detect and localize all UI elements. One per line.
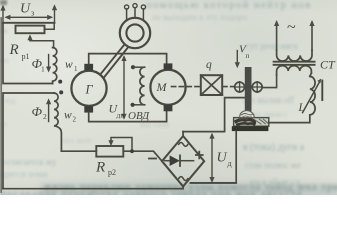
wire: electrode to bridge top — [183, 98, 246, 132]
svg-text:з: з — [31, 9, 34, 18]
winding ОВД — [128, 65, 150, 122]
transformer СТ secondary — [277, 66, 312, 75]
drive motor (AC) — [120, 18, 150, 48]
svg-text:СТ: СТ — [320, 58, 336, 72]
wire: secondary left to roller — [262, 75, 276, 88]
weld bead dark mass — [236, 120, 254, 124]
svg-text:2: 2 — [43, 112, 47, 121]
corner smudge — [0, 0, 7, 5]
svg-text:R: R — [95, 160, 105, 176]
svg-text:w: w — [65, 59, 73, 71]
brush М top — [164, 63, 173, 69]
svg-text:п: п — [246, 52, 250, 60]
wire: bottom control loop — [61, 150, 96, 152]
svg-text:q: q — [206, 59, 212, 71]
wire: top reference bus — [3, 22, 55, 24]
wire: bridge plus to workpiece drop — [191, 182, 237, 184]
dashed link М to feed box — [172, 86, 201, 88]
svg-text:2: 2 — [73, 116, 77, 124]
bleed-through text — [146, 0, 312, 11]
wire: workpiece to bridge output — [190, 131, 236, 182]
brush Г top — [84, 64, 93, 71]
node Uдв annotation — [109, 55, 127, 120]
node Uз annotation — [0, 2, 57, 23]
ac tilde top — [179, 142, 188, 146]
svg-text:w: w — [64, 110, 72, 122]
svg-text:д: д — [228, 159, 232, 168]
svg-text:~: ~ — [287, 19, 296, 36]
wire: armature bottom — [89, 111, 167, 122]
wire: bridge bottom lead to left bus — [3, 186, 183, 188]
node Vп annotation — [235, 44, 250, 69]
node Ф1 flux arrow — [32, 55, 52, 74]
winding w2 — [54, 93, 61, 151]
ac tilde bottom — [179, 177, 188, 181]
svg-text:Ф: Ф — [32, 104, 43, 119]
svg-text:р1: р1 — [22, 52, 30, 61]
wire: w2 loop top / left bus lower — [3, 93, 54, 189]
three-phase terminals — [126, 9, 128, 20]
svg-text:дв: дв — [117, 111, 125, 120]
Rр2 wiper short — [108, 138, 134, 154]
page edge line — [0, 18, 2, 192]
brush М bottom — [164, 105, 173, 111]
svg-text:М: М — [156, 80, 168, 94]
wire: armature top — [89, 54, 167, 64]
wire hook Rр1 right terminal — [45, 23, 55, 29]
wire: w1 loop bottom / left bus upper — [3, 23, 53, 84]
svg-text:1: 1 — [74, 65, 78, 73]
diode — [165, 160, 170, 162]
resistor Rр1 (potentiometer) — [16, 26, 45, 34]
svg-text:Г: Г — [85, 83, 94, 97]
workpiece backing shadow — [232, 126, 269, 131]
transformer СТ primary — [277, 50, 312, 61]
wire: secondary right into L — [310, 73, 312, 76]
svg-text:U: U — [20, 2, 31, 17]
feed roller right — [252, 82, 263, 93]
svg-text:U: U — [217, 151, 228, 166]
svg-text:р2: р2 — [108, 168, 116, 177]
feed mechanism box q — [201, 75, 222, 95]
node dot w2 — [59, 90, 63, 94]
transformer core — [274, 62, 315, 65]
inductor L (variable) — [269, 76, 315, 122]
resistor Rр2 — [96, 146, 123, 157]
electrode — [245, 67, 252, 114]
wire: bridge top lead — [182, 132, 184, 136]
svg-text:R: R — [9, 42, 19, 58]
node Ф2 flux arrow — [32, 98, 52, 121]
feed roller left — [234, 82, 245, 93]
winding w1 — [53, 48, 57, 84]
Rр1 wiper — [27, 34, 53, 47]
plus label — [196, 152, 203, 159]
motor М — [150, 70, 185, 105]
svg-text:ОВД: ОВД — [128, 110, 150, 122]
shaft coupling — [100, 45, 124, 75]
svg-text:L: L — [298, 102, 305, 114]
minus label — [149, 158, 156, 160]
node Uд annotation — [209, 133, 231, 183]
weld pool — [240, 111, 254, 118]
workpiece — [234, 118, 269, 127]
node dot w1 — [58, 80, 62, 84]
transformer СТ supply arrows — [274, 19, 315, 50]
svg-text:1: 1 — [41, 65, 45, 74]
generator Г — [71, 71, 106, 106]
rectifier bridge — [162, 136, 204, 186]
brush Г bottom — [84, 106, 93, 112]
